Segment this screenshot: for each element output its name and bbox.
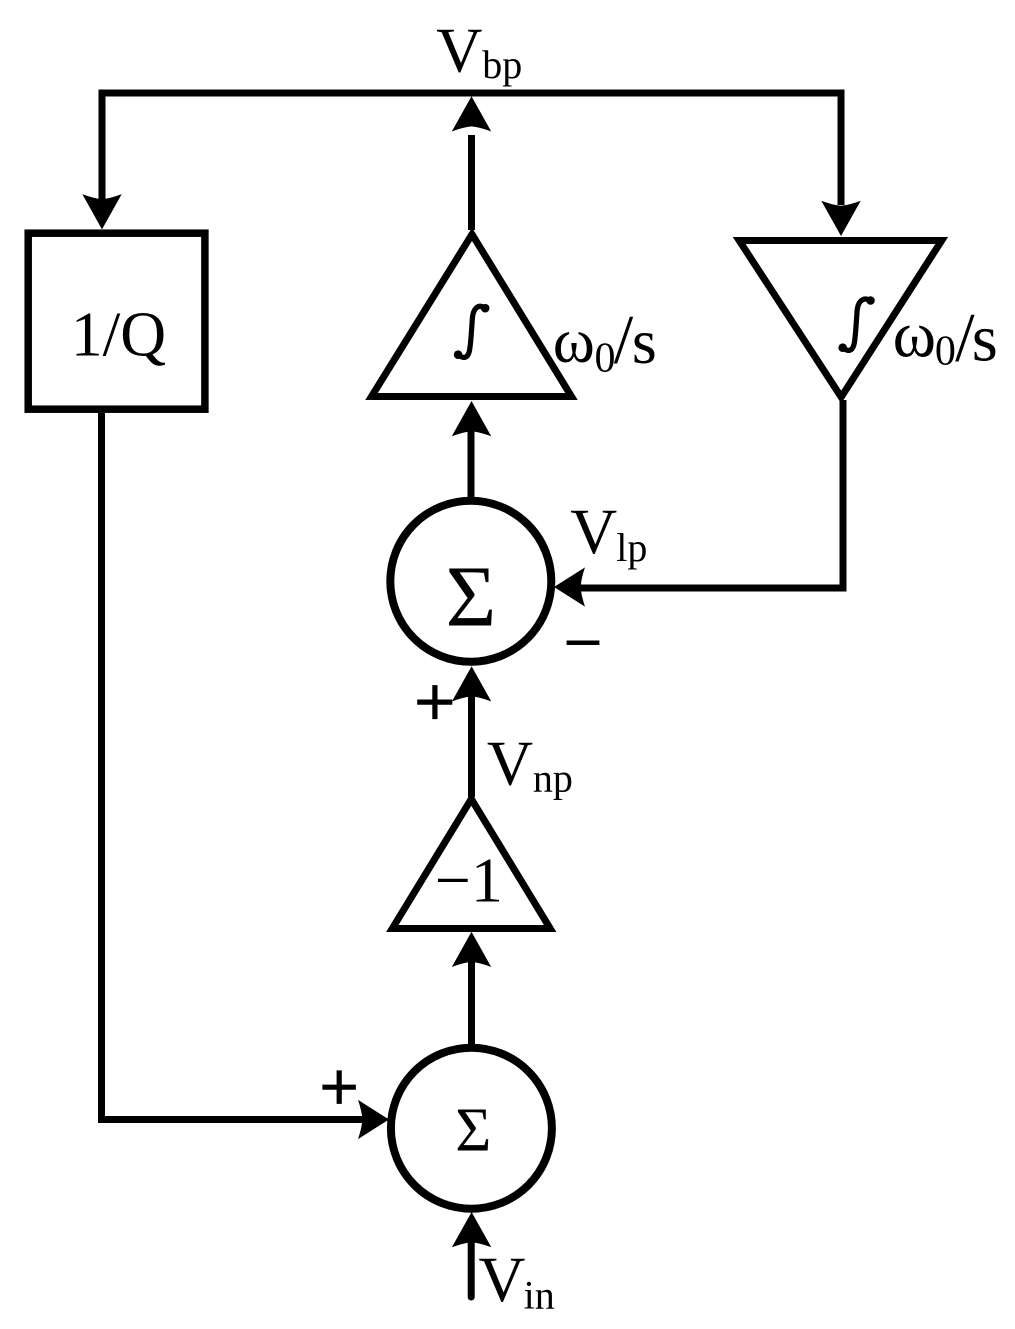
svg-text:0: 0 — [595, 335, 616, 381]
wire -1 amp to middle summer — [468, 680, 475, 797]
gain block 1/Q — [28, 233, 205, 409]
svg-text:V: V — [570, 496, 617, 568]
svg-text:V: V — [436, 14, 482, 85]
plus sign at input summer left — [322, 1070, 356, 1104]
integral sign in U2 — [838, 296, 874, 352]
svg-text:Σ: Σ — [455, 1097, 491, 1165]
svg-text:/: / — [614, 302, 634, 379]
svg-text:bp: bp — [482, 42, 522, 87]
svg-text:Σ: Σ — [446, 548, 497, 645]
summer (input) circle — [391, 1048, 552, 1209]
minus sign at middle summer — [567, 640, 600, 645]
wire Vbp feedback: top horizontal with left and right drops — [102, 93, 841, 205]
summer (middle) circle — [390, 501, 551, 662]
svg-text:lp: lp — [616, 525, 647, 570]
integrator U2 triangle (lowpass, inverted) — [739, 241, 942, 398]
svg-text:V: V — [479, 1244, 526, 1316]
arrowhead into 1/Q box — [82, 194, 121, 229]
wire middle summer to bandpass integrator — [468, 415, 475, 497]
wire input summer to -1 amp — [468, 945, 475, 1045]
svg-text:s: s — [972, 301, 998, 375]
integral sign in U1 — [454, 304, 490, 359]
node Vin input arrow — [468, 1230, 475, 1297]
svg-text:ω: ω — [553, 305, 595, 376]
svg-text:−1: −1 — [435, 845, 503, 916]
plus sign at middle summer — [417, 685, 452, 719]
inverter amp -1 triangle — [392, 799, 550, 929]
arrowhead into right integrator U2 — [821, 201, 860, 236]
svg-text:np: np — [533, 755, 573, 800]
integrator U1 triangle (bandpass) — [372, 234, 572, 396]
svg-text:in: in — [524, 1272, 555, 1317]
svg-text:1/Q: 1/Q — [71, 298, 166, 369]
wire U1 output up to Vbp node — [468, 135, 475, 230]
svg-text:0: 0 — [935, 328, 956, 374]
svg-text:V: V — [487, 728, 533, 799]
wire right integrator to middle summer — [570, 400, 843, 588]
wire from 1/Q box down and right to input summer — [102, 413, 383, 1120]
svg-text:s: s — [632, 306, 657, 377]
svg-text:ω: ω — [893, 298, 936, 371]
arrowhead into input summer — [358, 1100, 389, 1139]
